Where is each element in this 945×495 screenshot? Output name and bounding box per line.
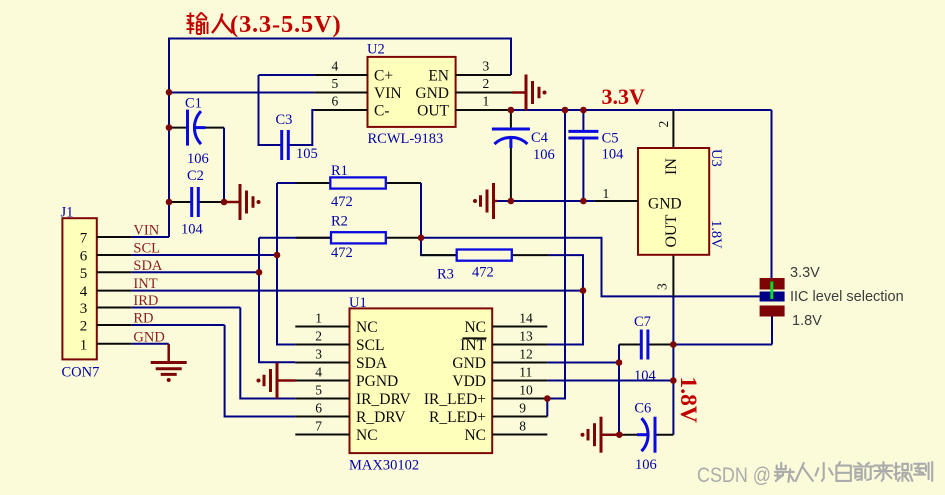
svg-text:R1: R1 (331, 163, 348, 179)
svg-text:C2: C2 (187, 168, 204, 184)
svg-text:472: 472 (331, 245, 353, 261)
svg-text:VIN: VIN (374, 85, 402, 102)
svg-text:GND: GND (133, 329, 164, 345)
svg-text:11: 11 (519, 365, 532, 380)
svg-text:2: 2 (656, 121, 671, 128)
svg-text:4: 4 (331, 59, 338, 74)
svg-text:IR_LED+: IR_LED+ (424, 391, 486, 408)
svg-text:104: 104 (181, 222, 204, 238)
svg-text:1.8V: 1.8V (792, 313, 822, 329)
svg-text:472: 472 (331, 194, 353, 210)
svg-text:14: 14 (519, 311, 533, 326)
svg-text:2: 2 (315, 329, 322, 344)
svg-text:106: 106 (533, 147, 555, 163)
svg-text:10: 10 (519, 383, 533, 398)
svg-text:U1: U1 (349, 295, 367, 311)
svg-text:NC: NC (356, 319, 378, 336)
svg-text:MAX30102: MAX30102 (349, 458, 419, 474)
svg-text:EN: EN (428, 68, 449, 85)
svg-text:R2: R2 (331, 214, 348, 230)
svg-text:1: 1 (603, 186, 610, 201)
svg-text:C-: C- (374, 103, 390, 120)
svg-text:C+: C+ (374, 68, 393, 85)
svg-text:1: 1 (483, 94, 490, 109)
svg-text:7: 7 (80, 231, 88, 247)
svg-text:3: 3 (315, 347, 322, 362)
svg-text:INT: INT (133, 276, 157, 292)
svg-text:13: 13 (519, 329, 533, 344)
svg-text:3.3V: 3.3V (602, 84, 646, 109)
svg-text:RCWL-9183: RCWL-9183 (368, 131, 444, 147)
svg-text:8: 8 (519, 419, 526, 434)
svg-text:7: 7 (315, 419, 322, 434)
svg-text:9: 9 (519, 401, 526, 416)
svg-text:106: 106 (635, 457, 657, 473)
svg-text:3: 3 (483, 59, 490, 74)
svg-text:CON7: CON7 (62, 365, 100, 381)
svg-text:IN: IN (663, 158, 680, 175)
svg-text:VDD: VDD (452, 373, 486, 390)
svg-text:J1: J1 (61, 205, 74, 221)
svg-text:INT: INT (460, 337, 486, 354)
svg-text:U2: U2 (367, 42, 385, 58)
svg-text:IIC level selection: IIC level selection (790, 289, 904, 305)
svg-text:R_DRV: R_DRV (356, 409, 406, 426)
svg-text:2: 2 (483, 76, 490, 91)
svg-text:GND: GND (648, 196, 682, 213)
svg-text:472: 472 (472, 265, 494, 281)
svg-text:GND: GND (452, 355, 486, 372)
svg-text:3: 3 (80, 301, 88, 317)
svg-text:5: 5 (80, 266, 88, 282)
svg-text:IR_DRV: IR_DRV (356, 391, 412, 408)
svg-text:C6: C6 (634, 401, 651, 417)
svg-text:6: 6 (80, 249, 88, 265)
svg-text:SDA: SDA (133, 258, 163, 274)
svg-text:5: 5 (315, 383, 322, 398)
svg-text:104: 104 (602, 147, 625, 163)
svg-text:R3: R3 (437, 267, 454, 283)
svg-text:6: 6 (315, 401, 322, 416)
svg-text:OUT: OUT (417, 103, 449, 120)
svg-text:1: 1 (80, 337, 88, 353)
svg-text:1.8V: 1.8V (675, 377, 701, 423)
svg-text:SDA: SDA (356, 355, 388, 372)
svg-text:104: 104 (634, 368, 657, 384)
svg-text:C4: C4 (531, 130, 549, 146)
svg-text:R_LED+: R_LED+ (429, 409, 486, 426)
svg-text:NC: NC (356, 427, 378, 444)
svg-text:VIN: VIN (133, 223, 159, 239)
svg-text:NC: NC (464, 319, 486, 336)
svg-text:C5: C5 (602, 131, 619, 147)
svg-text:NC: NC (464, 427, 486, 444)
svg-text:SCL: SCL (133, 241, 160, 257)
svg-text:12: 12 (519, 347, 533, 362)
svg-text:(3.3-5.5V): (3.3-5.5V) (230, 11, 341, 38)
svg-text:4: 4 (80, 284, 88, 300)
svg-text:105: 105 (296, 146, 318, 162)
svg-text:1: 1 (315, 311, 322, 326)
svg-text:106: 106 (187, 151, 209, 167)
svg-text:C3: C3 (276, 112, 293, 128)
svg-text:IRD: IRD (133, 293, 158, 309)
svg-text:CSDN @: CSDN @ (697, 464, 771, 487)
svg-text:2: 2 (80, 319, 88, 335)
svg-text:RD: RD (133, 311, 153, 327)
svg-text:6: 6 (331, 94, 338, 109)
svg-text:3.3V: 3.3V (790, 265, 820, 281)
svg-text:C1: C1 (185, 96, 202, 112)
svg-text:SCL: SCL (356, 337, 384, 354)
svg-text:1.8V: 1.8V (708, 220, 724, 249)
svg-text:PGND: PGND (356, 373, 398, 390)
svg-text:OUT: OUT (663, 214, 680, 247)
svg-text:4: 4 (315, 365, 322, 380)
svg-text:3: 3 (655, 283, 670, 290)
svg-text:C7: C7 (634, 314, 651, 330)
svg-text:5: 5 (331, 76, 338, 91)
svg-text:U3: U3 (708, 149, 724, 167)
svg-text:GND: GND (415, 85, 449, 102)
